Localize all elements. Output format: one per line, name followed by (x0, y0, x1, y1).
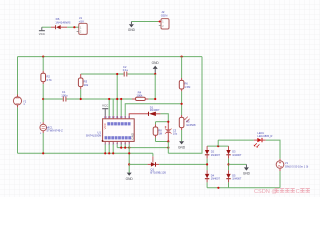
svg-text:GND: GND (152, 61, 160, 65)
svg-text:BT169B,126: BT169B,126 (150, 171, 166, 175)
wire GND to J2 (131, 21, 158, 23)
svg-text:10u: 10u (173, 132, 178, 136)
svg-text:SN74LS00N: SN74LS00N (86, 133, 102, 137)
wire D1 right to corner (160, 114, 168, 122)
ground symbol (below R5) (178, 141, 186, 149)
wire V1 to bottom rail (279, 171, 281, 188)
node GND junction (154, 73, 156, 75)
capacitor C1 100n (61, 90, 68, 101)
svg-text:+5V: +5V (79, 20, 84, 24)
wire R8 bottom to C3 column (156, 141, 169, 143)
wire C3 column down (167, 142, 169, 154)
node C3 junctions (167, 121, 169, 123)
wire x=43 branch (42, 57, 44, 71)
wire pin9 up and right to R6 branch (125, 104, 181, 116)
ground symbol (top, near J2) (128, 22, 136, 32)
wire LED to V1 (266, 140, 280, 159)
resistor R4 100k (132, 90, 148, 100)
svg-text:GND: GND (126, 177, 134, 181)
op-amp U1 SN74LS00N body (86, 119, 135, 142)
resistor R2 4.7k (41, 71, 52, 84)
wire R3 branch / upper horizontal (81, 73, 156, 75)
junction at J1 pin1 (73, 26, 75, 28)
transistor Q1 BT169B thyristor (148, 153, 167, 174)
wire pin10 up (120, 99, 122, 116)
svg-text:GND: GND (243, 172, 251, 176)
svg-text:GND: GND (178, 145, 186, 149)
ground symbol (inverted, above wire) (152, 61, 160, 74)
connector J1 +5V (77, 16, 88, 35)
ground symbol (below IC) (126, 173, 134, 182)
LED1 LED-0805_R (254, 131, 273, 148)
svg-text:VCC: VCC (103, 122, 107, 129)
svg-text:1N4007: 1N4007 (211, 177, 221, 181)
svg-text:SIN(0 5 50 10m 1 0): SIN(0 5 50 10m 1 0) (285, 164, 308, 168)
wire top rail (18, 56, 203, 58)
pin numbers bottom row (105, 142, 131, 145)
svg-text:1N4007: 1N4007 (232, 177, 242, 181)
VCC power symbol (left) (39, 27, 46, 36)
wire pin12 up (112, 99, 114, 116)
node R6/R5 junction (181, 103, 183, 105)
svg-text:100n: 100n (61, 93, 68, 97)
svg-text:1N4007: 1N4007 (211, 153, 221, 157)
diode D4 1N4007 (205, 170, 221, 182)
svg-text:1N4007: 1N4007 (150, 108, 160, 112)
wire right vertical of loop (168, 57, 202, 154)
microphone Y2 (13, 95, 26, 108)
svg-text:0.1u: 0.1u (123, 68, 129, 72)
capacitor C3 10u (165, 122, 178, 142)
resistor R3 10k (78, 74, 88, 89)
VCC power symbol above pin 14 (102, 104, 109, 116)
wire pins 1-3 down to bottom rail (105, 144, 113, 153)
watermark CSDN (254, 188, 310, 195)
wire Q1 to bridge (159, 163, 207, 165)
wire R6 branch vertical (181, 57, 183, 78)
wire C2-net down to mid rail (154, 74, 156, 99)
connector J2 GDN (159, 10, 169, 29)
wire pin13 up (108, 99, 110, 116)
svg-text:10k: 10k (84, 83, 89, 87)
pin name glyph rows (107, 122, 110, 125)
node top rail junctions (42, 56, 44, 58)
svg-text:1.5M: 1.5M (185, 85, 191, 89)
pin stubs top (105, 116, 129, 119)
wire Q1 row from GND column (129, 163, 147, 165)
voltage source V1 SIN (276, 159, 308, 171)
diode D3 1N4007 (226, 146, 242, 159)
J2 pin lead (158, 21, 161, 23)
resistor R6 1.5M (179, 78, 190, 91)
svg-text:VCC: VCC (39, 32, 46, 36)
pin stubs bottom (105, 141, 129, 144)
svg-text:STW9-9745-Z: STW9-9745-Z (46, 129, 63, 133)
svg-text:CSDN @: CSDN @ (254, 189, 277, 195)
node bottom rail junction (42, 152, 44, 154)
wire pin8 to D1 (129, 114, 148, 116)
wire R8 top to C3 column (156, 121, 169, 123)
diode D1 1N4007 (149, 105, 161, 116)
pin numbers top row (104, 116, 131, 119)
wire pin7 down to GND (128, 144, 130, 172)
svg-text:VCC: VCC (102, 104, 109, 108)
svg-text:1N4007: 1N4007 (232, 153, 242, 157)
wire bridge mid rails (207, 159, 228, 171)
wire MIC1 to bottom rail (42, 133, 44, 153)
microphone MIC1 (40, 122, 63, 135)
capacitor C2 0.1u (123, 65, 129, 77)
wire stub to LED row (217, 140, 219, 146)
wire pin11 up to C2 net (116, 74, 118, 116)
wire VCC to D6 (42, 26, 51, 28)
svg-text:4.7k: 4.7k (46, 78, 52, 82)
svg-text:1M: 1M (158, 132, 162, 136)
svg-text:1N4148WS: 1N4148WS (55, 21, 70, 25)
wire bridge bottom rail (207, 182, 228, 187)
diode D6 1N4148WS (51, 17, 71, 29)
wire under-IC horizontal (117, 147, 168, 149)
svg-text:GL5528: GL5528 (186, 123, 196, 127)
wire pins 4-6 down (117, 144, 125, 147)
svg-text:C: C (296, 189, 300, 195)
bridge rectifier: wire top rail (207, 145, 228, 147)
svg-text:LED-0805_R: LED-0805_R (257, 134, 272, 138)
svg-text:100k: 100k (136, 94, 143, 98)
resistor R5 GL5528 photoresistor (179, 115, 196, 130)
wire R2 to mid rail (42, 84, 44, 122)
wire D6 to J1 (67, 26, 79, 28)
node mid-left junction (42, 98, 44, 100)
svg-text:GDN: GDN (161, 14, 168, 18)
wire left vertical (17, 57, 19, 95)
wire mid to GND (229, 163, 247, 165)
svg-text:GND: GND (128, 28, 136, 32)
resistor R8 1M (153, 122, 162, 142)
wire bottom rail (18, 152, 153, 154)
diode D2 1N4007 (205, 146, 221, 159)
diode D5 1N4007 (226, 170, 242, 182)
wire LED row (218, 139, 254, 141)
wire mid horizontal (43, 98, 155, 100)
ground symbol (bridge) (243, 164, 251, 175)
